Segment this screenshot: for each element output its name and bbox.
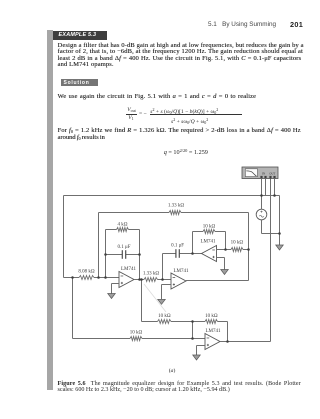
svg-text:10 kΩ: 10 kΩ <box>205 314 218 319</box>
svg-text:0.1 μF: 0.1 μF <box>171 244 184 249</box>
svg-text:10 kΩ: 10 kΩ <box>231 241 244 246</box>
svg-text:4 kΩ: 4 kΩ <box>118 222 128 227</box>
svg-text:1.33 kΩ: 1.33 kΩ <box>143 271 160 276</box>
svg-text:IN: IN <box>262 172 265 175</box>
svg-text:OUT: OUT <box>269 172 275 175</box>
svg-text:1.33 kΩ: 1.33 kΩ <box>168 203 185 208</box>
svg-text:10 kΩ: 10 kΩ <box>203 225 216 230</box>
svg-text:LM741: LM741 <box>121 267 137 272</box>
svg-text:8.08 kΩ: 8.08 kΩ <box>78 269 95 274</box>
svg-text:10 kΩ: 10 kΩ <box>158 314 171 319</box>
svg-text:10 kΩ: 10 kΩ <box>130 330 143 335</box>
svg-text:LM741: LM741 <box>201 240 217 245</box>
svg-text:LM741: LM741 <box>206 329 222 334</box>
svg-text:0.1 μF: 0.1 μF <box>118 245 131 250</box>
svg-text:LM741: LM741 <box>174 269 190 274</box>
